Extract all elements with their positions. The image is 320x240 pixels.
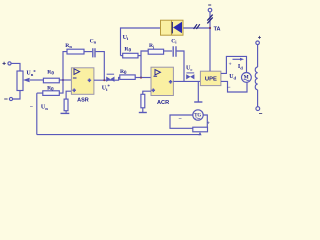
wire (142, 108, 144, 113)
svg-text:R0: R0 (120, 69, 127, 76)
svg-text:Un: Un (41, 104, 48, 110)
resistor R0 (Un* input) (43, 78, 59, 83)
svg-text:Ud: Ud (229, 74, 236, 80)
svg-text:+: + (169, 80, 172, 85)
converter UPE (200, 71, 221, 85)
svg-text:+: + (73, 89, 76, 94)
wire ACR loop vertical (141, 51, 148, 78)
svg-text:+: + (88, 79, 91, 84)
wire TG left (170, 115, 193, 128)
wire ASR feedback loop right (94, 52, 104, 81)
wire (59, 80, 63, 93)
supply terminal (3-phase source) (208, 5, 212, 12)
resistor balance ACR (141, 94, 145, 108)
wire (257, 45, 259, 67)
wire (135, 77, 151, 79)
capacitor Ci (173, 46, 176, 57)
inductor field winding (255, 67, 257, 90)
arrow Id (233, 58, 245, 61)
wiper arrow of RP2 (198, 132, 201, 135)
wire TG right (203, 115, 207, 127)
wire -Un riser (37, 93, 43, 135)
limiter symbol ASR output (106, 74, 114, 82)
wire ACR output (173, 80, 200, 82)
wire UPE top output (221, 56, 247, 73)
terminal - (setpoint supply bottom) (4, 97, 12, 100)
wiper arrow of RP1 (23, 78, 43, 83)
ground ACR (139, 112, 147, 114)
potentiometer RP2 (speed feedback) (193, 127, 208, 132)
ground UPE (194, 101, 202, 103)
wire UPE ground drop (197, 81, 199, 101)
svg-text:−: − (30, 104, 34, 110)
svg-text:R0: R0 (47, 70, 54, 77)
limiter symbol ACR output (186, 73, 194, 79)
svg-text:ACR: ACR (157, 100, 169, 106)
svg-text:Ci: Ci (171, 38, 177, 44)
wire (84, 51, 92, 53)
field winding terminal + (256, 36, 261, 45)
wire stub (121, 55, 123, 57)
svg-text:+: + (229, 62, 232, 68)
svg-text:Uc: Uc (186, 65, 192, 71)
svg-text:+: + (207, 121, 210, 127)
resistor Rn (67, 49, 84, 54)
node output T (103, 79, 105, 81)
rectifier block (current feedback) (161, 20, 184, 35)
resistor R0 (Ui* path) (120, 75, 135, 80)
field winding terminal - (256, 107, 262, 114)
svg-text:R0: R0 (124, 47, 131, 54)
tachogenerator TG (193, 110, 203, 120)
wire ASR output (104, 78, 120, 81)
svg-text:Cn: Cn (90, 38, 97, 44)
wire ASR noninverting pin (66, 91, 71, 99)
wire (164, 50, 173, 52)
resistor balance ASR (64, 99, 68, 111)
svg-text:Ri: Ri (149, 43, 155, 49)
3-phase slash on vertical (207, 15, 212, 24)
op-amp ASR (71, 68, 94, 95)
resistor Ri (148, 49, 163, 54)
wire (11, 63, 20, 71)
wire Ui feedback from rectifier (121, 28, 211, 56)
resistor R0 (-Un feedback) (43, 91, 60, 96)
terminal + (setpoint supply top) (3, 62, 12, 65)
svg-text:Rn: Rn (65, 43, 72, 49)
node ACR summing junction (140, 76, 142, 78)
svg-text:Ui: Ui (123, 35, 129, 41)
potentiometer RP1 (speed setting) (17, 71, 23, 91)
wire bottom rail (37, 134, 200, 136)
svg-text:−: − (179, 117, 183, 123)
wire (138, 55, 141, 57)
svg-text:R0: R0 (47, 85, 54, 92)
svg-text:UPE: UPE (205, 76, 217, 82)
capacitor Cn (93, 48, 95, 57)
svg-text:TG: TG (194, 114, 201, 119)
node TA junction (209, 27, 211, 29)
wire ASR feedback loop left (63, 52, 67, 80)
node ASR summing junction (62, 79, 64, 81)
svg-text:+: + (152, 89, 155, 94)
wire (59, 79, 71, 81)
svg-text:Id: Id (238, 64, 243, 70)
wire (65, 111, 67, 113)
3-phase slash on wire (194, 24, 200, 29)
wire supply vertical (209, 12, 211, 71)
wire (13, 91, 20, 100)
wire ACR noninverting pin (143, 91, 151, 94)
svg-text:ASR: ASR (77, 98, 89, 104)
wire UPE bottom output (221, 81, 247, 92)
wire ACR loop right (177, 51, 184, 81)
op-amp ACR (151, 67, 173, 95)
wire (257, 90, 259, 107)
resistor R0 (Ui path) (123, 53, 138, 58)
svg-text:TA: TA (214, 27, 221, 33)
ground ASR (61, 112, 70, 114)
motor M (242, 73, 252, 83)
svg-text:−: − (227, 85, 231, 91)
